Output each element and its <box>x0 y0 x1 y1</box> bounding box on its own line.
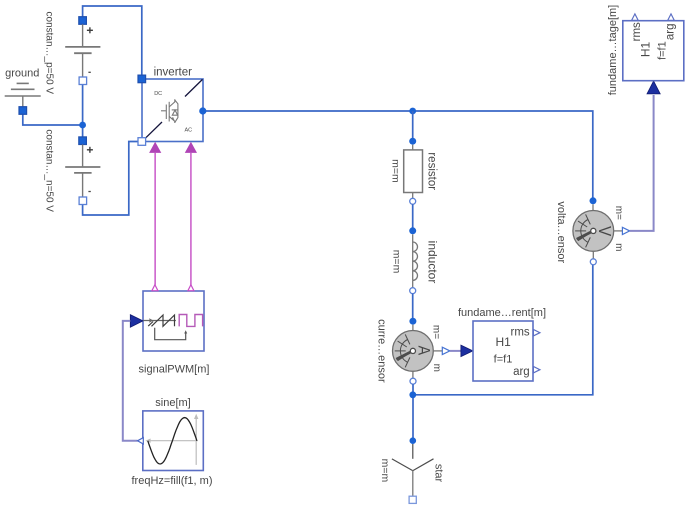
icon sawtooth carrier <box>148 315 174 326</box>
junction below current sensor <box>409 391 416 398</box>
icon y axis <box>195 418 197 465</box>
resistor (multiphase, m=m) <box>389 138 437 205</box>
block body <box>623 21 684 81</box>
output stub <box>433 350 442 352</box>
junction AC net to resistor branch <box>409 108 416 115</box>
arrow into inverter.fire_n <box>185 142 197 153</box>
svg-text:H1: H1 <box>639 42 653 58</box>
transistor IGBT with antiparallel diode (inverter icon) <box>161 99 178 123</box>
svg-text:inverter: inverter <box>154 67 193 79</box>
battery constantVoltage_n <box>44 129 101 212</box>
output connector currentSensor.i <box>442 347 450 354</box>
block body <box>473 321 533 381</box>
output connector signalPWM.fire <box>152 285 158 291</box>
block fundame...rent[m] (fundamental wave current analyser) <box>458 307 546 381</box>
pin currentSensor.p <box>409 318 416 325</box>
minus sign <box>88 71 90 73</box>
svg-text:star: star <box>432 464 444 483</box>
svg-text:m=: m= <box>431 325 442 339</box>
pin inverter.ac node <box>199 107 206 114</box>
output connector signalPWM.notFire <box>188 285 194 291</box>
svg-text:H1: H1 <box>496 335 512 349</box>
inductor (multiphase, m=m) <box>391 227 440 293</box>
battery constantVoltage_p <box>44 12 101 95</box>
boolean connection signalPWM.notFire to inverter.fire_n <box>190 153 192 285</box>
pin inverter.dc_n <box>138 138 146 146</box>
output stub <box>614 230 623 232</box>
icon feedback path with arrow <box>155 328 186 340</box>
wire constantVoltage_n.n down/right/up to inverter.dc_n <box>83 142 140 216</box>
gauge scale arc <box>400 340 407 363</box>
pin inverter.dc_p <box>138 75 146 83</box>
svg-text:constan…_n=50 V: constan…_n=50 V <box>44 129 55 212</box>
svg-text:ground: ground <box>5 67 39 79</box>
ground symbol bars <box>17 82 29 84</box>
pin resistor.p <box>409 138 416 145</box>
pin voltageSensor.n <box>590 259 596 265</box>
inverter block <box>142 67 203 142</box>
svg-text:volta…ensor: volta…ensor <box>555 201 567 263</box>
gauge needle <box>396 351 413 359</box>
signal wire sine.y to signalPWM.dutyCycle <box>123 321 138 441</box>
svg-text:freqHz=fill(f1, m): freqHz=fill(f1, m) <box>132 475 213 487</box>
svg-text:m: m <box>613 243 624 251</box>
battery plates <box>82 24 84 47</box>
gauge scale arc <box>581 220 588 243</box>
pin currentSensor.n <box>410 378 416 384</box>
current sensor curre...ensor <box>375 318 450 385</box>
svg-text:rms: rms <box>511 326 530 338</box>
wire junction across to voltageSensor.n <box>413 264 593 395</box>
svg-text:arg: arg <box>664 23 676 40</box>
plus sign <box>87 149 93 151</box>
diagonal separator <box>185 79 203 96</box>
svg-text:m=m: m=m <box>389 159 401 183</box>
arrow into inverter.fire_p <box>149 142 161 153</box>
gauge needle <box>577 231 594 239</box>
svg-text:DC: DC <box>154 91 162 97</box>
svg-text:fundame…tage[m]: fundame…tage[m] <box>607 5 619 96</box>
pin resistor.n <box>410 198 416 204</box>
wire resistor.n to inductor.p <box>412 204 414 228</box>
pin ground.p <box>19 107 27 115</box>
svg-text:m=m: m=m <box>391 250 403 274</box>
battery plates <box>82 145 84 168</box>
wire currentSensor.n to star.plug <box>412 384 414 438</box>
signal wire currentSensor.i to fundamentalWaveCurrent.u <box>450 350 462 352</box>
boolean connection signalPWM.fire to inverter.fire_p <box>154 153 156 285</box>
sensor body circle <box>393 331 434 372</box>
svg-text:constan…_p=50 V: constan…_p=50 V <box>44 12 55 95</box>
wire inductor.n to currentSensor.p <box>412 294 414 318</box>
pin star.pin_n <box>409 496 416 503</box>
input arrow fundamentalWaveCurrent.u <box>461 345 473 357</box>
svg-text:A: A <box>415 346 434 356</box>
icon baseline with arrow <box>143 320 176 322</box>
output connector voltageSensor.v <box>622 227 629 234</box>
pin voltageSensor.p <box>590 197 597 204</box>
pin constantVoltage_n.n (negative) <box>79 197 87 205</box>
icon sine curve <box>148 418 197 464</box>
pin inductor.p <box>409 227 416 234</box>
svg-text:signalPWM[m]: signalPWM[m] <box>139 364 210 376</box>
svg-text:m=: m= <box>613 206 624 220</box>
input arrow signalPWM.dutyCycle <box>130 315 143 328</box>
star point (m=m) <box>379 437 445 503</box>
svg-text:curre…ensor: curre…ensor <box>375 319 387 383</box>
pin star.plug_p <box>410 437 417 444</box>
sensor body circle <box>573 211 614 252</box>
wire AC net down to resistor.p <box>412 111 414 144</box>
ground <box>5 67 41 114</box>
block body <box>143 291 204 351</box>
output connector sine.y <box>138 438 144 444</box>
wire constantVoltage_p.p up and across to inverter.dc_p <box>83 6 142 77</box>
wire ground.p to DC midpoint net <box>23 113 83 125</box>
pin constantVoltage_n.p (positive) <box>79 137 87 145</box>
svg-text:f=f1: f=f1 <box>494 354 513 366</box>
svg-text:AC: AC <box>185 127 193 133</box>
star Y symbol <box>412 444 414 459</box>
inverter body <box>142 79 203 142</box>
plus sign <box>87 29 93 31</box>
output connector arg <box>533 367 540 373</box>
svg-text:fundame…rent[m]: fundame…rent[m] <box>458 307 546 319</box>
minus sign <box>88 191 90 193</box>
svg-text:f=f1: f=f1 <box>656 41 668 60</box>
icon x axis <box>148 440 198 442</box>
output connector rms <box>533 330 540 336</box>
svg-text:resistor: resistor <box>425 152 437 190</box>
inductor coil <box>412 234 414 242</box>
block fundame...tage[m] (fundamental wave voltage analyser, rotated 90) <box>607 5 684 96</box>
gauge ticks <box>575 214 590 247</box>
wire constantVoltage_p.n to constantVoltage_n.p <box>82 83 84 138</box>
block body <box>143 411 204 471</box>
pin constantVoltage_p.p (positive) <box>79 17 87 25</box>
svg-text:m: m <box>431 364 442 372</box>
pin inductor.n <box>410 288 416 294</box>
output connector arg <box>668 14 675 21</box>
pin constantVoltage_p.n (negative) <box>79 77 87 85</box>
signal wire voltageSensor.v to fundamentalWaveVoltage.u <box>630 95 654 231</box>
block sine[m] <box>132 397 213 487</box>
svg-text:inductor: inductor <box>425 241 439 284</box>
gauge ticks <box>395 334 410 367</box>
input arrow fundamentalWaveVoltage.u <box>647 81 660 94</box>
icon PWM pulse train <box>179 315 202 327</box>
svg-text:sine[m]: sine[m] <box>155 397 190 409</box>
wire inverter.ac main AC net to voltage sensor <box>203 111 593 199</box>
svg-text:V: V <box>595 226 615 236</box>
voltage sensor volta...ensor <box>555 197 630 264</box>
junction DC midpoint node <box>79 122 86 129</box>
output connector rms <box>632 14 639 21</box>
resistor body <box>412 145 414 150</box>
svg-text:m=m: m=m <box>379 459 391 483</box>
svg-text:rms: rms <box>631 22 643 41</box>
block signalPWM[m] <box>130 285 209 376</box>
svg-text:arg: arg <box>513 366 530 378</box>
